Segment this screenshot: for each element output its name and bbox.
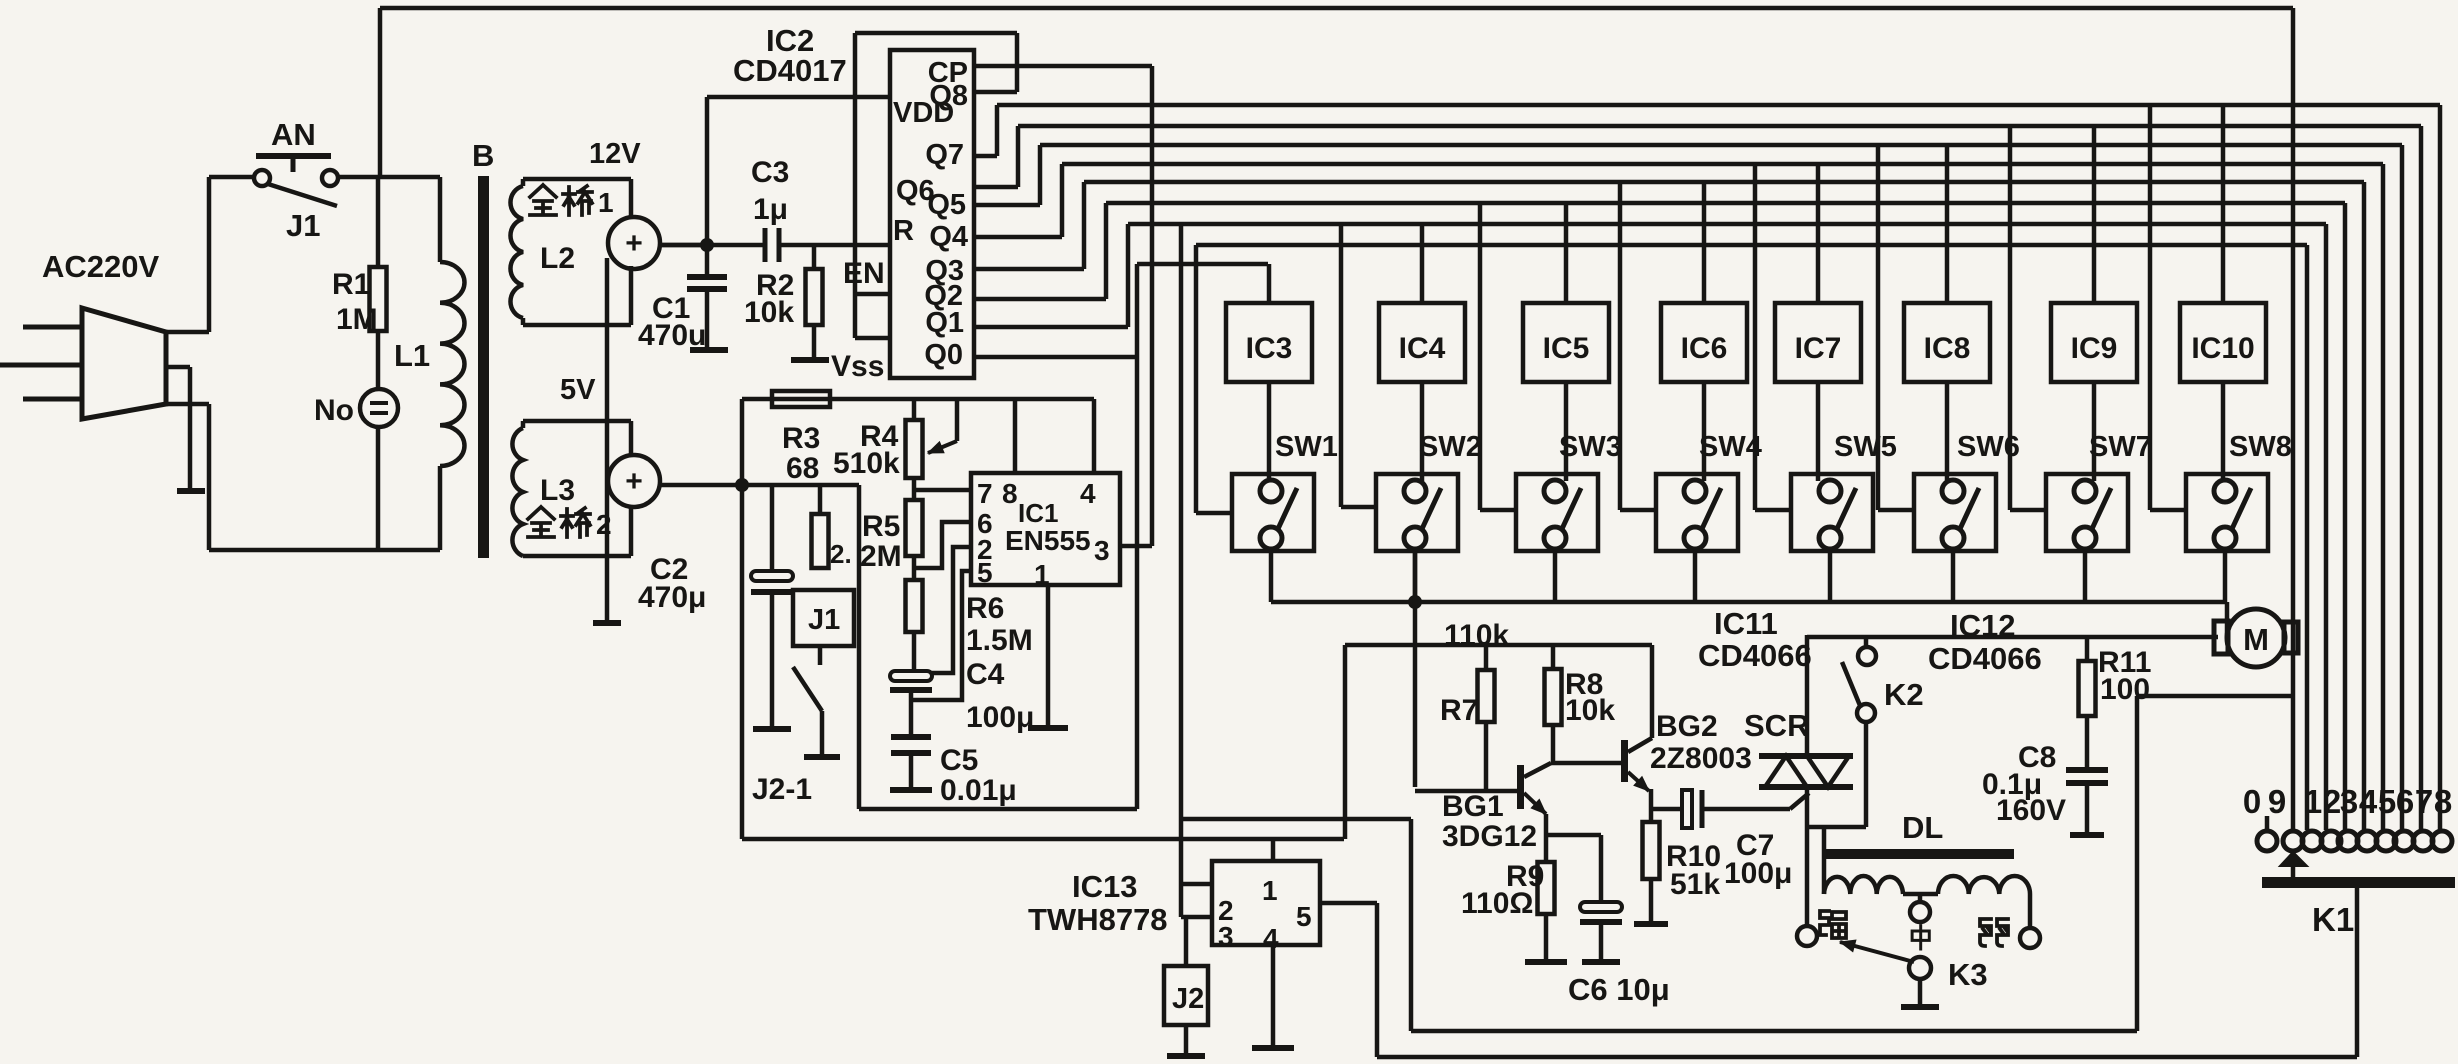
wire mains loop left upper (207, 177, 212, 332)
svg-text:SW4: SW4 (1699, 431, 1762, 463)
svg-text:IC8: IC8 (1924, 332, 1971, 365)
svg-text:SW1: SW1 (1275, 431, 1338, 463)
resistor R5 2M (906, 500, 923, 556)
svg-text:IC11: IC11 (1714, 606, 1778, 641)
svg-text:1M: 1M (336, 303, 378, 336)
svg-text:Vss: Vss (831, 350, 884, 383)
wire dropper to IC13 input (1179, 224, 1184, 884)
wire Q1 stair (974, 325, 1128, 330)
wire CP to dropper (974, 64, 1152, 69)
svg-text:Q5: Q5 (927, 189, 966, 221)
svg-text:8: 8 (1002, 478, 1018, 509)
svg-text:No: No (314, 394, 354, 427)
svg-text:CD4017: CD4017 (733, 53, 847, 88)
wire IC6 to bus (1702, 182, 1707, 303)
svg-text:1: 1 (2304, 783, 2322, 820)
wire BG2 emitter node (1649, 789, 1654, 809)
svg-text:2Z8003: 2Z8003 (1650, 742, 1752, 775)
svg-text:1μ: 1μ (753, 193, 788, 226)
relay coil J1 (793, 590, 854, 646)
svg-text:B: B (472, 138, 494, 173)
wire SW3 feed dropper (1478, 203, 1483, 510)
svg-text:R7: R7 (1440, 694, 1478, 727)
svg-text:R6: R6 (966, 592, 1004, 625)
wire IC13 feed line (1181, 817, 1411, 822)
switch SW4 (1656, 474, 1738, 551)
wire IC6 to SW4 (1702, 382, 1707, 481)
bus line L5 (to contact 4) (1084, 180, 2364, 185)
wire mains loop top-left to AN (209, 175, 255, 180)
capacitor C1 470u (705, 245, 710, 277)
wire SW1 to common rail (1269, 549, 1274, 602)
wire R2 bottom / Vss ground (812, 325, 817, 360)
wire SW2 feed dropper (1339, 224, 1344, 507)
wire SW5 to common rail (1828, 549, 1833, 602)
wire Q3 stair (974, 267, 1084, 272)
wire SW4 to common rail (1693, 549, 1698, 602)
svg-text:160V: 160V (1996, 794, 2066, 827)
svg-text:8: 8 (2434, 783, 2452, 820)
svg-text:1: 1 (1262, 875, 1278, 906)
svg-text:SCR: SCR (1744, 708, 1809, 743)
capacitor C2 470u (770, 485, 775, 572)
wire IC1 pin2 (930, 547, 971, 673)
rotary switch K1 contacts (2257, 831, 2277, 851)
svg-text:SW6: SW6 (1957, 431, 2020, 463)
capacitor C3 1u (763, 228, 768, 262)
resistor R6 1.5M (906, 580, 923, 632)
svg-text:2.: 2. (830, 539, 852, 569)
switch SW7 (2046, 474, 2128, 551)
wire amplifier top rail (1345, 643, 1652, 648)
wire mains loop left lower (207, 404, 212, 550)
svg-text:5: 5 (977, 557, 993, 588)
switch contact J2-1 (818, 646, 823, 665)
wiper arrow of K1 (2280, 852, 2307, 866)
capacitor C7 100u (coupling) (1682, 790, 1692, 828)
wire IC5 to bus (1564, 203, 1569, 303)
resistor 2.2M (818, 485, 823, 514)
IC U4 (IC4 box) (1379, 303, 1465, 382)
svg-text:IC4: IC4 (1399, 332, 1446, 365)
svg-text:510k: 510k (833, 447, 900, 480)
wire SW8 to common rail (2223, 549, 2228, 602)
wire IC1 pin7 (914, 488, 971, 493)
wire SW6 feed dropper (1876, 145, 1881, 510)
wire IC1 pin8 to 5V (1013, 399, 1018, 473)
switch SW5 (1791, 474, 1873, 551)
wire SW rail to motor line (2225, 602, 2230, 637)
bus line L3 (to contact 6) (1040, 143, 2402, 148)
ground (mains plug earth lead) (166, 365, 190, 370)
ground K3 (1918, 979, 1923, 1005)
wire IC1 pin3 stub (1120, 544, 1152, 549)
heater plate DL (1822, 849, 2014, 859)
svg-text:DL: DL (1902, 810, 1943, 845)
svg-text:M: M (2243, 622, 2269, 657)
wire IC1 pin4 to 5V (1092, 399, 1097, 473)
wire Q0 stub (974, 355, 1137, 360)
svg-text:100μ: 100μ (966, 701, 1034, 734)
svg-text:R3: R3 (782, 422, 820, 455)
wire SW1 feed dropper (1194, 245, 1199, 513)
bridge rectifier 2 (全桥2) (608, 455, 660, 507)
wire IC13 pin5 out (1320, 901, 1377, 906)
bus line L7 (to contact 2) (1128, 222, 2326, 227)
svg-text:110Ω: 110Ω (1461, 887, 1533, 920)
switch K2 (1858, 647, 1876, 665)
wire IC3 to SW1 (1267, 382, 1272, 481)
bus line L1 (to contact 8) (997, 103, 2440, 108)
wire SW4 feed dropper (1618, 182, 1623, 510)
wire amplifier rail to 5V net (1343, 645, 1348, 839)
wire EN pin stub (855, 292, 890, 297)
contact middle (zhong) (1910, 902, 1930, 922)
capacitor C4 100u (electrolytic) (890, 671, 932, 681)
wire SW5 feed dropper (1753, 164, 1758, 510)
svg-text:3: 3 (1218, 921, 1234, 952)
wire IC13 pin2/pin3 tie (1181, 882, 1212, 887)
bus line L9 (Q0 to IC3) (1137, 262, 1268, 267)
svg-text:IC5: IC5 (1543, 332, 1590, 365)
capacitor C8 0.1u 160V (2085, 716, 2090, 770)
wire AN to transformer (338, 175, 440, 180)
inductor DL winding right (1938, 876, 2030, 894)
svg-text:470μ: 470μ (638, 581, 706, 614)
wire BG2 base feed (1551, 761, 1621, 766)
svg-text:IC7: IC7 (1795, 332, 1842, 365)
svg-text:IC1: IC1 (1018, 498, 1058, 528)
wire BG2 collector (1650, 645, 1655, 738)
svg-text:4: 4 (2359, 783, 2378, 820)
wire triac MT2 up to IC12 rail (1805, 635, 1810, 756)
wire Q0 dropper to timing box (1135, 264, 1140, 809)
svg-text:3: 3 (1094, 535, 1110, 566)
svg-text:L3: L3 (540, 474, 575, 507)
svg-text:2M: 2M (860, 540, 902, 573)
wire triac MT1 down to K3 strong tap (1805, 787, 1810, 927)
transistor Q2 (BG2 2Z8003) (1621, 740, 1628, 782)
svg-text:IC9: IC9 (2071, 332, 2118, 365)
switch contact J1-1 (relay J1 contact) (254, 170, 270, 186)
wire 110k feed (SW rail to amplifier) (1413, 553, 1418, 787)
svg-text:10k: 10k (744, 296, 794, 329)
resistor R8 10k (1551, 645, 1556, 669)
wire top rail (mains to K1 common) (380, 6, 2293, 11)
svg-text:SW7: SW7 (2089, 431, 2152, 463)
wire VDD pin (707, 95, 890, 100)
svg-text:K3: K3 (1948, 957, 1988, 992)
IC U8 (IC8 box) (1904, 303, 1990, 382)
resistor R1 1M (376, 177, 381, 267)
svg-text:CD4066: CD4066 (1928, 641, 2042, 676)
svg-text:68: 68 (786, 452, 819, 485)
resistor R2 10k (812, 245, 817, 269)
wire 5V net bottom edge (742, 837, 1344, 842)
wire SW7 to common rail (2083, 549, 2088, 602)
svg-text:J1: J1 (286, 208, 320, 243)
wire bridge1 to 12V rail (660, 243, 707, 248)
wire control box bottom (1409, 819, 1414, 1031)
svg-text:2: 2 (596, 509, 612, 540)
wire switch-IC rail to motor (1807, 635, 2218, 640)
svg-text:C4: C4 (966, 658, 1005, 691)
svg-text:Q7: Q7 (925, 139, 964, 171)
wire IC1 pin1 to ground (1046, 585, 1051, 726)
wire bridge outputs common (605, 258, 610, 620)
wire SW common rail (1271, 600, 2227, 605)
svg-text:12V: 12V (589, 138, 641, 170)
wire top rail down to motor / contact 9 (2291, 8, 2296, 830)
wire SW8 feed dropper (2148, 105, 2153, 510)
ground J2 (1184, 1025, 1189, 1054)
switch SW6 (1914, 474, 1996, 551)
svg-text:1: 1 (598, 187, 614, 218)
wire 5V net left edge (740, 399, 745, 839)
ground under bridge rectifiers (593, 620, 621, 626)
svg-text:IC13: IC13 (1072, 869, 1137, 904)
svg-text:3DG12: 3DG12 (1442, 820, 1537, 853)
svg-text:+: + (625, 227, 643, 260)
relay coil J2 (1184, 917, 1189, 966)
wire DL centre tap (1903, 892, 1938, 897)
bus line L6 (to contact 3) (1106, 201, 2345, 206)
svg-text:K1: K1 (2312, 901, 2354, 938)
selector K3 (1909, 957, 1931, 979)
svg-text:EN555: EN555 (1005, 525, 1091, 556)
wire plug to loop (neutral) (166, 402, 209, 407)
wire IC7 to bus (1816, 164, 1821, 303)
svg-text:C6 10μ: C6 10μ (1568, 972, 1670, 1007)
wire contact 0 stub (2265, 816, 2270, 831)
svg-text:J1: J1 (808, 604, 840, 636)
wire Q2 stair (974, 297, 1106, 302)
IC U13 (IC13 TWH8778 switch regulator) (1212, 861, 1320, 945)
svg-text:10k: 10k (1565, 694, 1615, 727)
svg-text:7: 7 (2415, 783, 2433, 820)
svg-text:2: 2 (2323, 783, 2341, 820)
IC U3 (IC3 box) (1226, 303, 1312, 382)
IC U2 (IC2 CD4017 decade counter) (890, 50, 974, 378)
wire IC4 to bus (1420, 224, 1425, 303)
motor M (2214, 621, 2228, 654)
inductor L3 (5V secondary winding) (523, 419, 631, 424)
capacitor C6 10u (1546, 833, 1601, 838)
svg-text:0.01μ: 0.01μ (940, 774, 1017, 807)
wire SW2 to common rail (1413, 549, 1418, 602)
transformer core B (478, 176, 489, 558)
svg-text:4: 4 (1080, 478, 1096, 509)
node 5V rail (735, 478, 749, 492)
wire Q8 to EN loop (974, 90, 1017, 95)
inductor L1 (transformer primary) (438, 177, 443, 262)
svg-text:0: 0 (2243, 783, 2261, 820)
svg-text:5: 5 (2378, 783, 2396, 820)
svg-text:SW3: SW3 (1559, 431, 1622, 463)
svg-text:3: 3 (2340, 783, 2358, 820)
bus line L2 (to contact 7) (1018, 124, 2421, 129)
wire CP dropper down to IC1 pin3 (1150, 66, 1155, 546)
wire 5V net top edge (742, 397, 1094, 402)
wire IC5 to SW3 (1564, 382, 1569, 481)
svg-text:51k: 51k (1670, 868, 1720, 901)
switch SW1 (1232, 474, 1314, 551)
wire Q5 stair (974, 203, 1040, 208)
IC U1 (IC1 EN555 timer) (971, 473, 1120, 585)
svg-text:BG2: BG2 (1656, 710, 1718, 743)
resistor R9 110ohm (1544, 814, 1549, 862)
svg-text:470u: 470u (638, 319, 706, 352)
wire IC8 to bus (1945, 145, 1950, 303)
wire IC9 to SW7 (2092, 382, 2097, 481)
svg-text:100: 100 (2100, 673, 2150, 706)
potentiometer R4 510k (912, 399, 917, 420)
svg-text:+: + (625, 465, 643, 498)
svg-text:L1: L1 (394, 338, 430, 373)
AC plug P1 (AC220V mains plug) (82, 308, 166, 419)
node SW rail to trigger (1408, 595, 1422, 609)
wire 5V rail (660, 483, 859, 488)
wire Q6 stair (974, 185, 1018, 190)
svg-text:5V: 5V (560, 374, 596, 406)
wire IC8 to SW6 (1945, 382, 1950, 481)
wire IC10 to SW8 (2221, 382, 2226, 481)
svg-text:IC6: IC6 (1681, 332, 1728, 365)
bridge rectifier 1 (全桥1) (608, 217, 660, 269)
inductor L2 (12V secondary winding) (523, 177, 631, 182)
wire K1 wiper down (2355, 887, 2360, 1057)
wire triac/K2/DL node (1807, 825, 1866, 830)
svg-text:K2: K2 (1884, 677, 1924, 712)
svg-text:SW5: SW5 (1834, 431, 1897, 463)
capacitor C5 0.01u (891, 734, 931, 740)
svg-text:CD4066: CD4066 (1698, 638, 1812, 673)
wire 12V rail (660, 243, 765, 248)
bus line L4 (to contact 5) (1062, 162, 2383, 167)
svg-text:VDD: VDD (893, 97, 954, 129)
wire SW7 feed dropper (2008, 126, 2013, 510)
IC U7 (IC7 box) (1775, 303, 1861, 382)
wire Q4 stair (974, 235, 1062, 240)
svg-text:J2-1: J2-1 (752, 773, 812, 806)
resistor R10 51k (1649, 809, 1654, 822)
resistor R7 (1484, 645, 1489, 670)
svg-text:BG1: BG1 (1442, 790, 1504, 823)
wire IC13 pin1 to 5V net (1271, 839, 1276, 861)
wire EN to Q8 loop (vertical) (853, 33, 858, 338)
svg-text:6: 6 (2396, 783, 2414, 820)
svg-text:L2: L2 (540, 242, 575, 275)
wiper bar K1 (2262, 877, 2455, 888)
svg-text:Q1: Q1 (925, 307, 964, 339)
node 12V rail / VDD (700, 238, 714, 252)
svg-text:R5: R5 (862, 510, 900, 543)
switch SW2 (1376, 474, 1458, 551)
svg-text:SW2: SW2 (1419, 431, 1482, 463)
wire IC1 pin6 (914, 522, 971, 568)
wire SW3 to common rail (1553, 549, 1558, 602)
wire control box right (2135, 696, 2140, 1031)
svg-text:7: 7 (977, 478, 993, 509)
wire IC3 to bus (1267, 264, 1272, 303)
pushbutton AN (256, 153, 331, 159)
inductor DL winding left (1822, 827, 1827, 894)
wire BG1 base feed (1415, 789, 1520, 794)
resistor R3 68 (in 5V feed) (772, 391, 830, 407)
contact weak (ruo) (2020, 928, 2040, 948)
bus line L8 (to contact 1) (1196, 243, 2307, 248)
wire IC1 pin5 (911, 571, 971, 700)
svg-text:5: 5 (1296, 901, 1312, 932)
wire plug to loop (live) (166, 330, 209, 335)
wire SW6 to common rail (1951, 549, 1956, 602)
svg-text:Q0: Q0 (924, 339, 963, 371)
resistor R11 100 (2085, 637, 2090, 661)
IC U10 (IC10 box) (2180, 303, 2266, 382)
svg-text:IC3: IC3 (1246, 332, 1293, 365)
wiper of R4 (955, 399, 960, 441)
wire Q7 stair (974, 154, 997, 159)
svg-text:R1: R1 (332, 268, 370, 301)
thyristor SCR (triac) (1790, 793, 1809, 809)
IC U9 (IC9 box) (2051, 303, 2137, 382)
contact strong (qiang) (1797, 926, 1817, 946)
svg-text:AC220V: AC220V (42, 249, 159, 284)
wire bottom return (K1 to IC13 pin5) (1377, 1055, 2357, 1060)
wire IC4 to SW2 (1420, 382, 1425, 481)
neon lamp No (376, 331, 381, 389)
wire IC10 to bus (2221, 105, 2226, 303)
wire IC13 pin4 ground (1271, 945, 1276, 1046)
svg-text:R: R (893, 215, 914, 247)
svg-text:IC10: IC10 (2191, 332, 2254, 365)
svg-text:1.5M: 1.5M (966, 624, 1033, 657)
transistor Q1 (BG1 3DG12) (1517, 765, 1524, 809)
svg-text:AN: AN (271, 117, 316, 152)
IC U6 (IC6 box) (1661, 303, 1747, 382)
svg-text:SW8: SW8 (2229, 431, 2292, 463)
IC U5 (IC5 box) (1523, 303, 1609, 382)
svg-text:100μ: 100μ (1724, 857, 1792, 890)
svg-text:C5: C5 (940, 744, 978, 777)
svg-text:TWH8778: TWH8778 (1028, 902, 1168, 937)
svg-text:EN: EN (843, 257, 885, 290)
wire IC9 to bus (2092, 126, 2097, 303)
svg-text:C3: C3 (751, 156, 789, 189)
wire mains loop bottom (209, 548, 440, 553)
svg-text:9: 9 (2268, 783, 2286, 820)
wire timing loop (5V to Q0 net) (857, 485, 862, 809)
switch SW3 (1516, 474, 1598, 551)
svg-text:Q4: Q4 (929, 221, 968, 253)
wire IC7 to SW5 (1816, 382, 1821, 481)
switch SW8 (2186, 474, 2268, 551)
svg-text:J2: J2 (1172, 983, 1204, 1015)
